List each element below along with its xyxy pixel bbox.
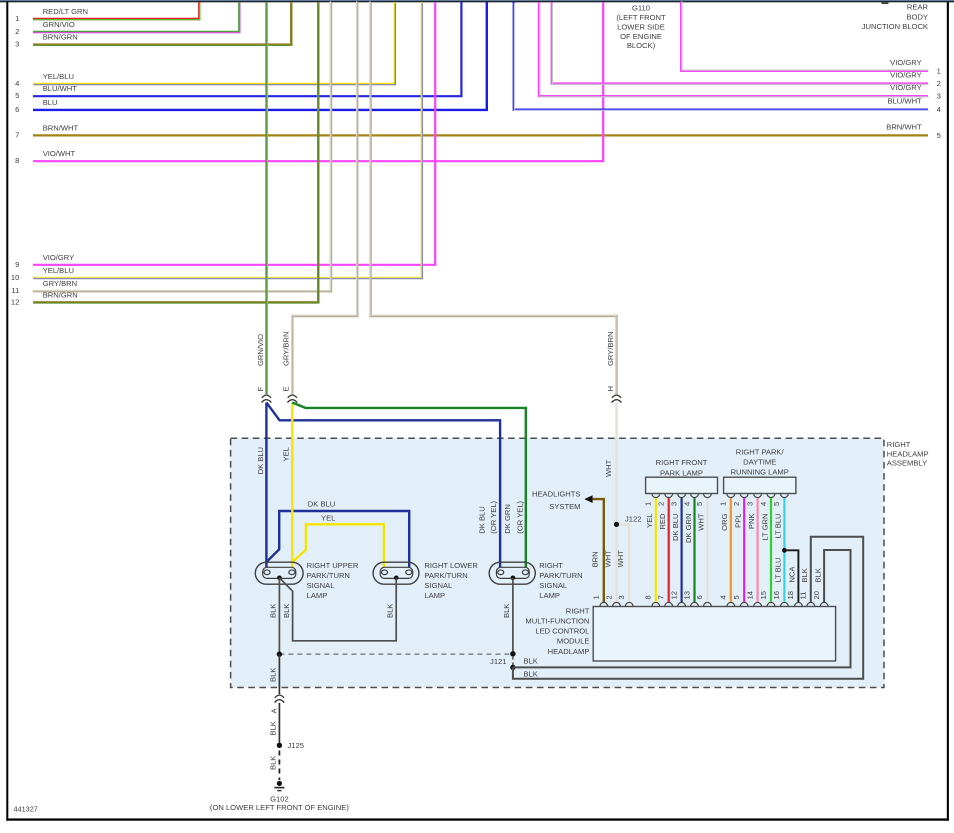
svg-text:3: 3 [669, 502, 678, 506]
svg-text:BLK: BLK [800, 568, 809, 582]
svg-text:J121: J121 [490, 657, 506, 666]
svg-text:ASSEMBLY: ASSEMBLY [887, 459, 927, 468]
svg-text:RIGHT UPPER: RIGHT UPPER [307, 561, 359, 570]
svg-text:LAMP: LAMP [539, 591, 560, 600]
svg-text:BLK: BLK [524, 669, 538, 678]
svg-text:6: 6 [15, 105, 19, 114]
svg-text:12: 12 [11, 297, 19, 306]
svg-text:BLK: BLK [502, 604, 511, 618]
svg-text:4: 4 [682, 502, 691, 506]
svg-text:10: 10 [11, 273, 19, 282]
svg-text:HEADLAMP: HEADLAMP [548, 647, 590, 656]
svg-text:1: 1 [719, 502, 728, 506]
svg-text:SIGNAL: SIGNAL [539, 581, 567, 590]
svg-text:1: 1 [937, 66, 941, 75]
svg-text:2: 2 [732, 502, 741, 506]
svg-text:DK GRN: DK GRN [503, 504, 512, 534]
svg-text:4: 4 [719, 595, 728, 599]
svg-text:SIGNAL: SIGNAL [307, 581, 335, 590]
svg-text:PARK/TURN: PARK/TURN [424, 571, 467, 580]
svg-text:5: 5 [15, 91, 19, 100]
svg-text:ORG: ORG [720, 513, 729, 530]
svg-text:2: 2 [604, 595, 613, 599]
svg-text:BLK: BLK [269, 604, 278, 618]
svg-text:441327: 441327 [14, 804, 38, 813]
svg-text:15: 15 [759, 591, 768, 599]
svg-text:BRN/WHT: BRN/WHT [43, 123, 79, 132]
svg-text:BLK: BLK [385, 604, 394, 618]
svg-text:BODY: BODY [906, 12, 928, 21]
svg-text:4: 4 [937, 105, 941, 114]
svg-text:3: 3 [937, 92, 941, 101]
svg-text:4: 4 [15, 79, 19, 88]
svg-text:1: 1 [592, 595, 601, 599]
svg-text:E: E [282, 386, 291, 391]
svg-text:MODULE: MODULE [557, 637, 590, 646]
svg-text:OF ENGINE: OF ENGINE [620, 32, 662, 41]
svg-text:RED/LT GRN: RED/LT GRN [43, 7, 88, 16]
svg-text:VIO/WHT: VIO/WHT [43, 149, 76, 158]
svg-text:1: 1 [15, 14, 19, 23]
svg-text:YEL/BLU: YEL/BLU [43, 266, 74, 275]
svg-text:1: 1 [644, 502, 653, 506]
svg-text:BLK: BLK [269, 721, 278, 735]
svg-text:2: 2 [937, 79, 941, 88]
svg-text:5: 5 [772, 502, 781, 506]
svg-text:(ON LOWER LEFT FRONT OF ENGINE: (ON LOWER LEFT FRONT OF ENGINE) [210, 803, 349, 812]
svg-text:LAMP: LAMP [307, 591, 328, 600]
svg-text:GRN/VIO: GRN/VIO [43, 20, 75, 29]
svg-text:2: 2 [657, 502, 666, 506]
svg-text:J125: J125 [288, 741, 304, 750]
svg-text:(OR YEL): (OR YEL) [489, 500, 498, 533]
svg-text:7: 7 [15, 130, 19, 139]
svg-text:J122: J122 [625, 514, 641, 523]
svg-text:DK BLU: DK BLU [478, 506, 487, 533]
svg-text:4: 4 [759, 502, 768, 506]
svg-text:(OR YEL): (OR YEL) [515, 500, 524, 533]
svg-text:DAYTIME: DAYTIME [743, 458, 776, 467]
svg-text:YEL: YEL [645, 514, 654, 528]
svg-text:LT GRN: LT GRN [760, 514, 769, 541]
svg-text:PPL: PPL [734, 514, 743, 528]
svg-text:YEL/BLU: YEL/BLU [43, 72, 74, 81]
svg-text:REAR: REAR [907, 3, 929, 12]
svg-text:BRN: BRN [591, 551, 600, 567]
svg-text:MULTI-FUNCTION: MULTI-FUNCTION [525, 617, 589, 626]
svg-text:6: 6 [695, 595, 704, 599]
svg-text:YEL: YEL [282, 447, 291, 461]
svg-text:DK BLU: DK BLU [671, 514, 680, 541]
svg-text:5: 5 [695, 502, 704, 506]
svg-text:14: 14 [745, 591, 754, 599]
svg-text:PARK/TURN: PARK/TURN [539, 571, 582, 580]
svg-text:JUNCTION BLOCK: JUNCTION BLOCK [862, 22, 928, 31]
svg-text:WHT: WHT [604, 459, 613, 477]
svg-text:BLK: BLK [813, 568, 822, 582]
svg-text:DK GRN: DK GRN [684, 514, 693, 544]
svg-text:18: 18 [786, 591, 795, 599]
svg-text:3: 3 [745, 502, 754, 506]
svg-text:GRY/BRN: GRY/BRN [282, 332, 291, 366]
svg-text:RIGHT FRONT: RIGHT FRONT [656, 458, 708, 467]
svg-text:BRN/GRN: BRN/GRN [43, 33, 78, 42]
svg-text:BLU/WHT: BLU/WHT [888, 97, 923, 106]
svg-text:12: 12 [669, 591, 678, 599]
svg-text:BLU: BLU [43, 98, 58, 107]
svg-text:RED: RED [658, 513, 667, 530]
svg-text:RIGHT: RIGHT [539, 561, 563, 570]
svg-text:GRN/VIO: GRN/VIO [256, 334, 265, 366]
svg-text:20: 20 [812, 591, 821, 599]
svg-text:3: 3 [617, 595, 626, 599]
svg-text:WHT: WHT [616, 550, 625, 568]
svg-text:NCA: NCA [788, 566, 797, 583]
svg-text:PNK: PNK [747, 514, 756, 530]
svg-text:LED CONTROL: LED CONTROL [535, 627, 589, 636]
svg-text:13: 13 [682, 591, 691, 599]
svg-text:3: 3 [15, 40, 19, 49]
svg-text:RIGHT: RIGHT [887, 440, 911, 449]
svg-text:7: 7 [657, 595, 666, 599]
svg-text:LT BLU: LT BLU [774, 514, 783, 539]
svg-text:DK BLU: DK BLU [308, 500, 335, 509]
svg-text:RIGHT LOWER: RIGHT LOWER [424, 561, 478, 570]
svg-text:5: 5 [937, 131, 941, 140]
svg-text:BLK: BLK [269, 668, 278, 682]
svg-text:H: H [606, 386, 615, 391]
svg-text:11: 11 [799, 592, 808, 600]
svg-text:HEADLAMP: HEADLAMP [887, 449, 929, 458]
svg-text:F: F [256, 387, 265, 392]
svg-text:G110: G110 [632, 3, 650, 12]
svg-text:WHT: WHT [697, 513, 706, 531]
svg-text:9: 9 [15, 260, 19, 269]
svg-text:G102: G102 [270, 794, 289, 803]
svg-text:RUNNING LAMP: RUNNING LAMP [731, 468, 789, 477]
svg-text:LT BLU: LT BLU [774, 558, 783, 583]
svg-text:BLOCK): BLOCK) [627, 41, 656, 50]
svg-text:LOWER SIDE: LOWER SIDE [617, 22, 665, 31]
svg-text:GRY/BRN: GRY/BRN [606, 332, 615, 366]
svg-text:YEL: YEL [321, 513, 335, 522]
svg-text:8: 8 [644, 595, 653, 599]
svg-text:BLK: BLK [269, 756, 278, 770]
svg-text:PARK LAMP: PARK LAMP [660, 469, 703, 478]
svg-text:BLU/WHT: BLU/WHT [43, 84, 78, 93]
svg-text:16: 16 [772, 591, 781, 599]
svg-text:RIGHT PARK/: RIGHT PARK/ [736, 448, 785, 457]
svg-text:LAMP: LAMP [424, 591, 445, 600]
svg-text:2: 2 [15, 27, 19, 36]
svg-text:11: 11 [11, 286, 19, 295]
svg-text:VIO/GRY: VIO/GRY [890, 58, 922, 67]
svg-text:(LEFT FRONT: (LEFT FRONT [616, 13, 666, 22]
svg-text:SIGNAL: SIGNAL [424, 581, 452, 590]
svg-text:BLK: BLK [524, 657, 538, 666]
svg-text:SYSTEM: SYSTEM [549, 502, 580, 511]
svg-text:VIO/GRY: VIO/GRY [43, 253, 75, 262]
svg-text:RIGHT: RIGHT [566, 606, 590, 615]
svg-text:BLK: BLK [282, 604, 291, 618]
svg-text:8: 8 [15, 156, 19, 165]
svg-text:GRY/BRN: GRY/BRN [43, 279, 77, 288]
svg-text:BRN/WHT: BRN/WHT [886, 122, 922, 131]
svg-text:HEADLIGHTS: HEADLIGHTS [532, 490, 581, 499]
svg-text:PARK/TURN: PARK/TURN [307, 571, 350, 580]
svg-text:DK BLU: DK BLU [256, 447, 265, 474]
svg-text:5: 5 [732, 595, 741, 599]
